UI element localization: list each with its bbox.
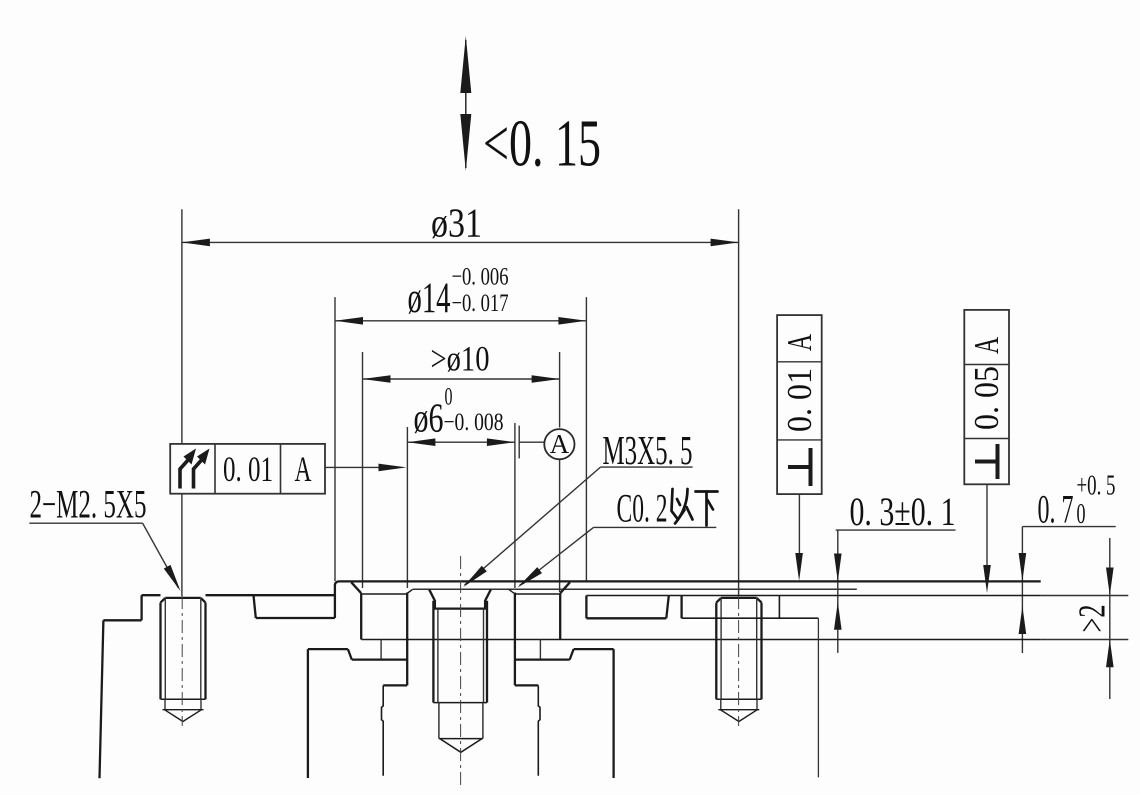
svg-text:M3X5. 5: M3X5. 5 xyxy=(603,427,693,473)
ledge floor xyxy=(515,658,570,660)
thread end line xyxy=(433,702,487,704)
datum leader line xyxy=(519,441,544,443)
frame leader xyxy=(325,466,379,468)
line C right surface xyxy=(586,595,1040,597)
divider xyxy=(777,439,822,441)
thin vert right in pocket floor xyxy=(539,640,541,660)
up arrow at bottom xyxy=(1106,639,1114,667)
groove slant right xyxy=(666,596,669,619)
recess inner wall xyxy=(778,596,780,619)
thread minor left xyxy=(720,598,722,699)
underline xyxy=(601,466,693,468)
ledge slant xyxy=(348,649,352,660)
underline xyxy=(836,529,956,531)
underline xyxy=(594,526,717,528)
leader arrow xyxy=(164,565,181,591)
leader arrow xyxy=(518,567,543,587)
ext line right (phi6) xyxy=(514,423,516,588)
leader vertical xyxy=(1021,527,1023,653)
ext line left (phi6) xyxy=(406,427,408,588)
underline xyxy=(29,522,142,524)
ext line right lower xyxy=(559,460,561,593)
screw top xyxy=(165,597,201,599)
line D extension thin xyxy=(1041,639,1129,641)
svg-text:0. 3±0. 1: 0. 3±0. 1 xyxy=(850,489,956,534)
frame divider 2 xyxy=(280,444,282,494)
thread minor left xyxy=(437,609,439,703)
frame3 leader xyxy=(986,484,988,565)
thin vert left in pocket floor xyxy=(380,640,382,660)
head left slant xyxy=(429,589,435,608)
svg-text:0. 7: 0. 7 xyxy=(1038,487,1074,532)
phi6 wall right xyxy=(514,593,516,686)
leader vertical xyxy=(837,530,839,653)
tip cone xyxy=(440,739,482,753)
svg-text:−0. 008: −0. 008 xyxy=(444,409,504,436)
chamfer right xyxy=(201,598,206,603)
pocket chamfer left xyxy=(351,582,361,593)
outer left xyxy=(159,603,161,700)
outer wall left (slanted) xyxy=(100,620,104,778)
arrow right (inward) xyxy=(487,438,515,446)
left screw centerline xyxy=(181,596,183,726)
thread minor right xyxy=(756,598,758,699)
tip shoulder xyxy=(163,709,204,711)
frame divider 1 xyxy=(214,444,216,494)
skirt outer left xyxy=(307,649,309,778)
tube outer wall left with relief xyxy=(382,685,384,775)
tip cone xyxy=(720,710,757,722)
divider xyxy=(964,364,1009,366)
ext line left (phi31) xyxy=(181,209,183,443)
dim line phi6 xyxy=(407,441,515,443)
line B sheet bottom xyxy=(413,588,857,590)
divider xyxy=(777,361,822,363)
head bottom xyxy=(433,607,487,609)
svg-text:C0. 2: C0. 2 xyxy=(617,486,668,531)
screw top xyxy=(721,597,757,599)
svg-text:0: 0 xyxy=(1077,499,1086,530)
svg-text:A: A xyxy=(550,429,570,459)
arrow left xyxy=(363,375,391,383)
line C extension thin xyxy=(1041,595,1129,597)
line D flange bottom xyxy=(361,639,1040,641)
tube end face left xyxy=(383,684,407,686)
up arrow xyxy=(834,602,842,630)
leader slant xyxy=(520,527,594,585)
svg-text:−0. 006: −0. 006 xyxy=(452,264,509,291)
right screw centerline xyxy=(738,596,740,726)
dim line vertical xyxy=(1109,538,1111,699)
leader slant xyxy=(465,467,601,585)
ext line right upper / datum stem xyxy=(559,352,561,428)
arrow right xyxy=(711,239,739,247)
down arrow at top surface xyxy=(834,554,842,582)
screw bottom xyxy=(161,698,206,700)
divider xyxy=(964,438,1009,440)
skirt outer right xyxy=(612,649,614,778)
feature control frame: total runout 0.01 A xyxy=(170,444,325,494)
thread major right xyxy=(486,601,488,703)
down arrow xyxy=(1019,553,1027,581)
line A top surface xyxy=(340,580,1041,582)
arrow left (inward) xyxy=(407,438,435,446)
total runout symbol (two slanted arrows) xyxy=(180,449,210,489)
recess floor xyxy=(682,617,819,619)
dim line phi31 xyxy=(182,241,739,243)
left lower step xyxy=(103,619,141,621)
svg-text:ø14: ø14 xyxy=(408,275,451,322)
pocket wall left xyxy=(360,593,362,639)
thread minor right xyxy=(483,609,485,703)
svg-text:<0. 15: <0. 15 xyxy=(483,107,601,181)
svg-text:A: A xyxy=(295,449,312,489)
chamfer left xyxy=(716,598,721,603)
left top surface b (continues over groove) xyxy=(206,594,335,596)
tip body right xyxy=(482,703,484,739)
tip side left xyxy=(720,699,722,710)
tube end face right xyxy=(515,684,538,686)
outer right xyxy=(760,603,762,700)
screw bottom xyxy=(716,698,761,700)
boss left wall + fillet xyxy=(335,581,340,618)
chamfer left xyxy=(161,598,166,603)
recess left wall xyxy=(680,596,682,619)
tip side right xyxy=(756,699,758,710)
phi6 top chamfer left xyxy=(406,589,412,594)
ext line left lower (phi31) xyxy=(181,495,183,597)
svg-text:ø6: ø6 xyxy=(414,395,444,441)
arrow right xyxy=(558,317,586,325)
feature control frame: perpendicularity 0.01 A (vertical) xyxy=(777,315,822,494)
leader arrow xyxy=(463,566,487,587)
svg-text:0. 01: 0. 01 xyxy=(223,449,273,489)
outer left xyxy=(715,603,717,700)
svg-text:+0. 5: +0. 5 xyxy=(1077,471,1116,502)
arrow left xyxy=(182,239,210,247)
svg-text:>ø10: >ø10 xyxy=(431,339,490,379)
arrow left xyxy=(335,317,363,325)
down arrowhead xyxy=(460,114,471,171)
ext line left (>phi10) xyxy=(362,352,364,588)
tip cone xyxy=(165,710,202,722)
tick after phi6 xyxy=(518,426,520,459)
pocket shelf right xyxy=(515,593,560,595)
skirt ledge left xyxy=(308,648,348,650)
tip shoulder xyxy=(439,738,483,740)
down arrow at top xyxy=(1106,568,1114,596)
tip side right xyxy=(200,699,202,710)
up arrowhead xyxy=(460,36,471,93)
svg-text:2−M2. 5X5: 2−M2. 5X5 xyxy=(30,482,147,527)
frame3 leader arrow xyxy=(983,565,991,593)
left top surface a xyxy=(142,594,161,596)
ledge floor xyxy=(352,658,407,660)
up arrow xyxy=(1019,606,1027,634)
frame leader arrow xyxy=(379,464,407,472)
groove slant left xyxy=(254,595,256,618)
datum circle A xyxy=(544,429,574,459)
tube outer wall right with relief xyxy=(538,685,540,775)
svg-text:−0. 017: −0. 017 xyxy=(452,290,509,317)
head right slant xyxy=(485,589,491,608)
underline xyxy=(1022,526,1115,528)
tip body left xyxy=(438,703,440,739)
svg-text:>2: >2 xyxy=(1072,605,1114,633)
skirt ledge right xyxy=(574,648,614,650)
svg-text:A: A xyxy=(967,337,1006,354)
perpendicularity symbol (rotated) xyxy=(975,444,998,479)
thread minor left xyxy=(164,598,166,699)
pocket shelf left xyxy=(361,593,406,595)
dim line >phi10 xyxy=(363,378,560,380)
perpendicularity symbol (rotated) xyxy=(788,448,811,486)
svg-text:0: 0 xyxy=(445,384,453,411)
ext line left (phi14) xyxy=(334,297,336,581)
pocket chamfer right xyxy=(560,582,570,593)
vertical double-arrow symbol xyxy=(465,40,467,168)
arrow right xyxy=(532,375,560,383)
svg-text:ø31: ø31 xyxy=(431,200,482,246)
pocket wall right xyxy=(559,593,561,639)
thread minor right xyxy=(200,598,202,699)
outer right xyxy=(204,603,206,700)
CJK glyph yi (SVG strokes) xyxy=(672,489,693,524)
feature control frame: perpendicularity 0.05 A (vertical) xyxy=(964,310,1009,484)
leader slant xyxy=(143,523,179,588)
svg-text:0. 05: 0. 05 xyxy=(967,366,1006,430)
ext line right (phi31) xyxy=(738,209,740,596)
ledge slant xyxy=(570,649,574,660)
bore wall (long thin) xyxy=(817,618,819,777)
thread major left xyxy=(432,601,434,703)
tip shoulder xyxy=(718,709,759,711)
M3 centerline (dash-dot) xyxy=(460,556,462,787)
frame2 leader arrow xyxy=(795,553,803,581)
svg-text:0. 01: 0. 01 xyxy=(780,368,819,432)
CJK glyph xia (SVG strokes) xyxy=(696,492,718,526)
left step wall xyxy=(140,595,142,620)
left groove floor xyxy=(256,617,335,619)
right groove floor xyxy=(586,617,666,619)
svg-text:A: A xyxy=(780,334,819,351)
tip side left xyxy=(164,699,166,710)
phi6 wall left xyxy=(406,593,408,686)
chamfer right xyxy=(757,598,762,603)
phi6 top chamfer right xyxy=(509,589,515,594)
boss right wall xyxy=(585,596,587,619)
ext line right (phi14) xyxy=(585,297,587,581)
frame2 leader xyxy=(798,494,800,553)
dim line phi14 xyxy=(335,320,586,322)
